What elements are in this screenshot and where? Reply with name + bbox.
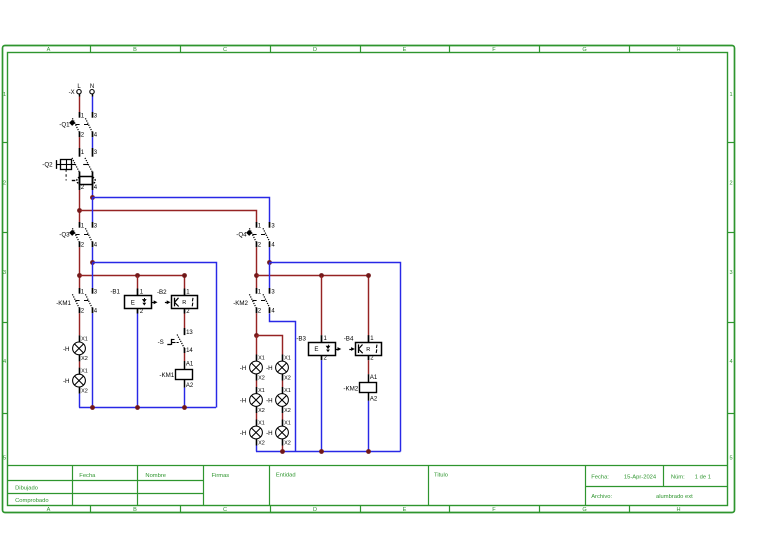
lamp -H chainB1 xyxy=(266,355,291,382)
wire -B4 pin2 to coil xyxy=(368,360,370,374)
node L1 to -B1 xyxy=(135,273,140,278)
svg-text:X2: X2 xyxy=(258,440,265,446)
wire chainB link1 xyxy=(282,381,284,388)
wire between left lamps xyxy=(79,361,81,367)
svg-text:D: D xyxy=(313,507,317,513)
svg-text:X1: X1 xyxy=(81,336,88,342)
wire -KM1 pole4 to N bus xyxy=(92,313,94,407)
wire N2 bottom bus xyxy=(256,451,401,453)
svg-text:-Q3: -Q3 xyxy=(59,231,70,238)
svg-text:A: A xyxy=(47,47,51,53)
lamp -H left1 xyxy=(63,335,88,362)
svg-text:E: E xyxy=(314,346,318,353)
svg-text:H: H xyxy=(676,47,680,53)
svg-text:Titulo: Titulo xyxy=(434,473,448,479)
svg-text:alumbrado ext: alumbrado ext xyxy=(656,494,693,500)
row dividers left band xyxy=(2,143,7,414)
svg-text:G: G xyxy=(582,507,586,513)
wire lamp to N bus xyxy=(79,394,81,408)
node N2 bus chainB xyxy=(280,449,285,454)
contactor contacts -KM1 xyxy=(56,288,98,315)
node lamp chains xyxy=(254,333,259,338)
svg-text:Firmas: Firmas xyxy=(212,473,230,479)
circuit breaker -Q4 xyxy=(236,222,275,249)
contactor coil -KM1 xyxy=(159,361,193,389)
wire L1 from -Q3 down xyxy=(79,247,81,288)
wire chainA link2 xyxy=(256,413,258,420)
lamp -H chainA3 xyxy=(240,420,265,447)
svg-text:A1: A1 xyxy=(370,375,378,381)
circuit breaker -Q3 xyxy=(59,222,98,249)
title block labels xyxy=(15,473,711,505)
lamp -H chainB3 xyxy=(266,420,291,447)
svg-text:X1: X1 xyxy=(258,388,265,394)
svg-text:Entidad: Entidad xyxy=(276,473,296,479)
beam arrow from -B1 xyxy=(152,300,158,304)
svg-text:14: 14 xyxy=(186,348,193,354)
RCD -Q2 xyxy=(42,148,98,191)
svg-text:3: 3 xyxy=(729,270,732,276)
svg-text:X2: X2 xyxy=(284,375,291,381)
svg-text:5: 5 xyxy=(729,455,732,461)
svg-text:E: E xyxy=(403,507,407,513)
svg-text:X2: X2 xyxy=(284,408,291,414)
wire N branch to -Q4 xyxy=(93,198,270,223)
svg-text:Dibujado: Dibujado xyxy=(15,486,38,492)
svg-text:E: E xyxy=(131,299,135,306)
terminal -X phase L xyxy=(69,84,82,97)
wire chainA link1 xyxy=(256,381,258,388)
wire L2 drop to -B3 xyxy=(321,276,323,336)
row numbers left xyxy=(3,92,6,462)
wire -B3 pin2 to N bus xyxy=(321,360,323,451)
wire N1 to -KM1 xyxy=(92,263,94,289)
svg-text:-H: -H xyxy=(240,397,247,404)
wire N1 bottom bus xyxy=(79,407,216,409)
svg-text:-Q2: -Q2 xyxy=(42,162,53,169)
wire N from -X to -Q1 xyxy=(92,97,94,113)
svg-text:2: 2 xyxy=(3,181,6,187)
wire N1 right riser xyxy=(93,263,217,408)
svg-text:Archivo:: Archivo: xyxy=(591,494,612,500)
wire from -S to coil -KM1 xyxy=(184,353,186,361)
column letters top xyxy=(47,47,681,53)
node N1 bus coil xyxy=(182,405,187,410)
svg-text:-H: -H xyxy=(63,378,70,385)
contactor coil -KM2 xyxy=(343,374,377,402)
node N1 bus KM1 xyxy=(90,405,95,410)
node L2 bus end xyxy=(366,273,371,278)
svg-text:X2: X2 xyxy=(284,440,291,446)
svg-text:X2: X2 xyxy=(81,388,88,394)
wire N from -Q1 to -Q2 xyxy=(92,137,94,148)
svg-text:Núm:: Núm: xyxy=(671,474,685,480)
wire L from -X to -Q1 xyxy=(79,97,81,113)
wire L1 bus to -B2 xyxy=(80,276,185,289)
svg-text:B: B xyxy=(133,507,137,513)
svg-text:4: 4 xyxy=(3,359,6,365)
lamp -H chainA1 xyxy=(240,355,265,382)
circuit breaker -Q1 xyxy=(59,112,98,139)
wire N1 from -Q3 down xyxy=(92,247,94,262)
svg-text:X2: X2 xyxy=(81,356,88,362)
svg-text:1: 1 xyxy=(729,92,732,98)
wire N from node to -Q3 xyxy=(92,197,94,222)
svg-text:X1: X1 xyxy=(81,369,88,375)
svg-text:-B3: -B3 xyxy=(296,335,306,342)
node N2 branch xyxy=(267,260,272,265)
contactor contacts -KM2 xyxy=(233,288,275,315)
svg-text:Fecha: Fecha xyxy=(79,473,96,479)
svg-text:3: 3 xyxy=(3,270,6,276)
svg-text:D: D xyxy=(313,47,317,53)
svg-text:R: R xyxy=(366,347,370,353)
row dividers right band xyxy=(728,143,735,414)
wire coil -KM1 to N bus xyxy=(184,388,186,408)
svg-text:G: G xyxy=(582,47,586,53)
node N2 bus coil xyxy=(366,449,371,454)
wire -KM2 pole4 riser xyxy=(270,314,296,452)
wire -KM2 to lamp node xyxy=(256,313,258,335)
wire -KM1 to lamp xyxy=(79,313,81,335)
beam arrow from -B3 xyxy=(336,347,342,351)
svg-text:-Q1: -Q1 xyxy=(59,121,70,128)
wire L1 drop to -B1 xyxy=(137,276,139,289)
node L branch to -Q4 xyxy=(77,208,82,213)
svg-text:Fecha:: Fecha: xyxy=(591,474,609,480)
svg-text:-H: -H xyxy=(63,346,70,353)
svg-text:X1: X1 xyxy=(284,420,291,426)
lamp -H left2 xyxy=(63,368,88,395)
svg-text:13: 13 xyxy=(186,330,193,336)
column dividers bottom band xyxy=(91,506,630,513)
border inner frame xyxy=(8,53,728,506)
svg-text:A: A xyxy=(47,507,51,513)
svg-text:Nombre: Nombre xyxy=(145,473,166,479)
svg-text:-KM1: -KM1 xyxy=(159,372,174,379)
svg-text:-KM1: -KM1 xyxy=(56,300,71,307)
svg-text:X1: X1 xyxy=(284,355,291,361)
wire N from -Q2 down xyxy=(92,190,94,197)
svg-text:-H: -H xyxy=(266,430,273,437)
wire L2 from -Q4 down xyxy=(256,247,258,288)
svg-text:-B4: -B4 xyxy=(344,335,354,342)
svg-text:-Q4: -Q4 xyxy=(236,231,247,238)
photocell emitter -B3 xyxy=(296,335,335,361)
svg-text:X1: X1 xyxy=(284,388,291,394)
wire N2 from -Q4 down xyxy=(269,247,271,262)
svg-text:X2: X2 xyxy=(258,375,265,381)
svg-text:X2: X2 xyxy=(258,408,265,414)
svg-text:2: 2 xyxy=(729,181,732,187)
svg-text:5: 5 xyxy=(3,455,6,461)
wire L2 bus to -B4 xyxy=(257,276,369,336)
wire L from -Q2 down xyxy=(79,190,81,222)
svg-text:15-Apr-2024: 15-Apr-2024 xyxy=(624,474,657,480)
svg-text:H: H xyxy=(676,507,680,513)
node N2 bus B3 xyxy=(319,449,324,454)
wire N2 to -KM2 xyxy=(269,263,271,289)
wire chainA to N bus xyxy=(256,446,258,452)
svg-text:-B2: -B2 xyxy=(157,289,167,296)
lamp -H chainA2 xyxy=(240,387,265,414)
terminal -X neutral N xyxy=(90,84,94,97)
photocell emitter -B1 xyxy=(110,289,151,315)
beam arrow into -B4 xyxy=(349,347,355,351)
svg-text:-KM2: -KM2 xyxy=(343,385,358,392)
svg-text:R: R xyxy=(182,300,186,306)
svg-text:A2: A2 xyxy=(370,396,378,402)
node L1 bus xyxy=(77,273,82,278)
node N1 branch xyxy=(90,260,95,265)
svg-text:1 de 1: 1 de 1 xyxy=(695,474,711,480)
svg-text:N: N xyxy=(90,84,94,90)
svg-text:A2: A2 xyxy=(186,383,194,389)
wire to right lamp chain xyxy=(257,336,283,355)
svg-text:F: F xyxy=(492,47,496,53)
lamp -H chainB2 xyxy=(266,387,291,414)
svg-text:-H: -H xyxy=(266,365,273,372)
manual switch -S xyxy=(158,328,194,354)
svg-text:C: C xyxy=(223,507,227,513)
svg-text:A1: A1 xyxy=(186,362,194,368)
svg-text:F: F xyxy=(492,507,496,513)
wire chainB to N bus xyxy=(282,446,284,452)
wire to left lamp chain xyxy=(256,335,258,354)
node N branch to -Q4 xyxy=(90,195,95,200)
wire L branch to -Q4 xyxy=(80,211,257,223)
node N1 bus B1 xyxy=(135,405,140,410)
svg-text:-H: -H xyxy=(240,430,247,437)
wire -B1 pin2 to N bus xyxy=(137,314,139,408)
node L2 bus xyxy=(254,273,259,278)
title block grid xyxy=(7,465,728,505)
node L2 to -B3 xyxy=(319,273,324,278)
svg-text:-S: -S xyxy=(158,339,164,346)
wire coil -KM2 to N bus xyxy=(368,401,370,452)
wire -B2 pin2 to -S xyxy=(184,314,186,329)
wire chainB link2 xyxy=(282,413,284,420)
wire N2 right riser xyxy=(270,263,401,452)
svg-text:-B1: -B1 xyxy=(110,289,120,296)
svg-text:4: 4 xyxy=(729,359,732,365)
svg-text:-KM2: -KM2 xyxy=(233,300,248,307)
svg-text:E: E xyxy=(403,47,407,53)
svg-text:-H: -H xyxy=(266,397,273,404)
svg-text:-X: -X xyxy=(69,90,75,96)
column dividers top band xyxy=(91,46,630,53)
svg-text:1: 1 xyxy=(3,92,6,98)
svg-text:Comprobado: Comprobado xyxy=(15,498,49,504)
svg-text:X1: X1 xyxy=(258,420,265,426)
beam arrow into -B2 xyxy=(165,300,171,304)
svg-text:X1: X1 xyxy=(258,355,265,361)
svg-text:C: C xyxy=(223,47,227,53)
node L1 bus end xyxy=(182,273,187,278)
photocell receiver -B4 xyxy=(344,335,382,361)
wire L from -Q1 to -Q2 xyxy=(79,137,81,148)
row numbers right xyxy=(729,92,732,462)
photocell receiver -B2 xyxy=(157,289,198,315)
column letters bottom xyxy=(47,507,681,513)
svg-text:B: B xyxy=(133,47,137,53)
svg-text:-H: -H xyxy=(240,365,247,372)
